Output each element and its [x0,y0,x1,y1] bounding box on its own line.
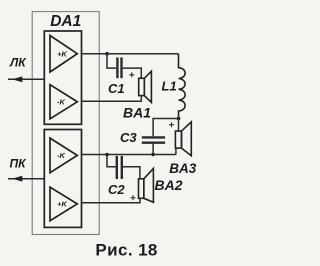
input wire ЛК [8,78,44,80]
svg-text:BA3: BA3 [169,161,196,176]
node junction at C1 tap [105,52,109,56]
svg-text:-K: -K [57,98,65,107]
capacitor C3 [142,136,165,138]
wire BA3 top stem [178,119,180,132]
amp pair box 2 (channels 3-4) [44,130,81,228]
svg-text:Рис. 18: Рис. 18 [95,241,157,260]
speaker BA1 [139,71,152,102]
svg-text:C2: C2 [108,182,125,197]
op-amp A2 [50,85,77,119]
op-amp A4 [50,187,77,221]
op-amp A3 [50,138,77,173]
wire C2 branch [107,155,116,167]
wire BA1 to amp2 output [82,96,142,102]
arrowhead ЛК [12,76,22,82]
polarity + of C1 [129,72,134,77]
svg-text:BA2: BA2 [155,177,183,193]
wire C2 to BA2 [123,167,140,179]
wire node to C3 [153,119,178,137]
capacitor C1 [116,57,118,78]
polarity + of C2 [131,195,136,200]
speaker BA3 [175,122,191,156]
wire C3 bottom lead [152,144,154,155]
wire C1 branch [107,54,116,68]
capacitor C2 [116,156,118,179]
svg-text:L1: L1 [162,79,177,94]
wire amp1 output to L1 [82,53,179,55]
op-amp A1 [50,36,77,73]
svg-text:+K: +K [57,49,67,58]
polarity + of BA3 [169,122,174,127]
svg-text:BA1: BA1 [123,104,151,120]
amp pair box 1 (channels 1-2) [44,31,81,124]
wire amp3 output [82,154,176,156]
svg-text:DA1: DA1 [50,13,81,30]
arrowhead ПК [12,176,22,182]
svg-text:-K: -K [57,151,65,160]
svg-text:+K: +K [57,200,67,209]
wire BA2 to amp4 output [82,198,141,203]
node junction at C3 bottom [151,153,154,156]
node junction L1 / BA3 / C3 [177,117,181,121]
svg-text:C3: C3 [120,130,137,145]
inductor L1 [179,54,186,119]
speaker BA2 [139,168,154,202]
wire C1 to BA1 [123,68,142,78]
svg-text:ЛК: ЛК [9,56,27,70]
wire BA3 bottom stem [175,148,177,154]
svg-text:C1: C1 [108,81,125,96]
node junction at C2 tap [105,153,109,157]
IC DA1 outline [32,12,99,235]
svg-text:ПК: ПК [10,156,28,170]
input wire ПК [8,178,44,180]
